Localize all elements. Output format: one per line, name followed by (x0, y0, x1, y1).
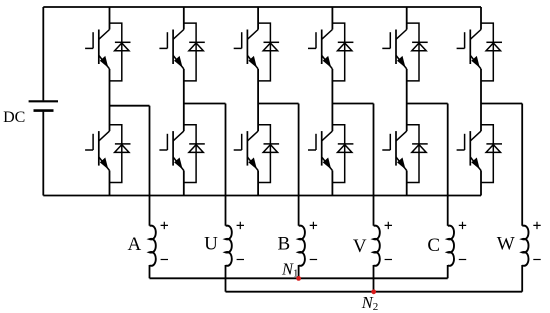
svg-text:N1: N1 (281, 260, 299, 280)
svg-text:B: B (277, 234, 290, 255)
svg-text:V: V (353, 236, 367, 257)
svg-text:U: U (204, 233, 218, 254)
svg-text:A: A (128, 234, 142, 255)
svg-text:DC: DC (3, 109, 25, 126)
svg-text:W: W (497, 234, 515, 255)
svg-text:N2: N2 (361, 293, 379, 313)
svg-text:C: C (427, 235, 440, 256)
